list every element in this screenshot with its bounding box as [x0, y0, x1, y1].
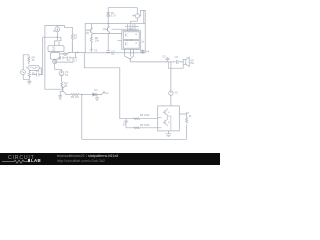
resistor R10 at right: [179, 111, 192, 139]
transistor Q5: [164, 120, 166, 124]
capacitor C3 series row: [58, 52, 78, 62]
crystal X1 hexagon: [28, 65, 40, 70]
bus wire y37: [43, 36, 61, 38]
pin wires into block: [128, 24, 135, 31]
svg-text:5.1V: 5.1V: [111, 14, 117, 18]
speaker line wire: [130, 61, 183, 63]
arrow mark beside I1: [54, 30, 56, 31]
transistor Q3: [60, 85, 65, 96]
capacitor C6 polarized: [175, 55, 179, 64]
svg-text:R8 100k: R8 100k: [140, 113, 150, 117]
node dot: [81, 94, 82, 95]
transistor Q1 chain inside box: [86, 24, 93, 37]
logo resistor squiggle: [2, 160, 28, 163]
svg-text:C3: C3: [64, 53, 68, 57]
node dot on box top: [108, 23, 109, 24]
speaker SPK1: [183, 57, 194, 66]
svg-text:5V: 5V: [65, 73, 68, 77]
source V2: [59, 70, 69, 77]
zener D2 on top wire: [107, 8, 138, 24]
svg-text:1u: 1u: [67, 58, 70, 62]
svg-text:out: out: [105, 91, 109, 95]
diode D3 circle: [53, 59, 57, 64]
stacked relay blocks: [122, 27, 145, 49]
transistor Q4: [164, 110, 166, 114]
emitter chain wire: [66, 94, 72, 96]
svg-text:V4: V4: [146, 50, 150, 54]
CircuitLab logo: [8, 155, 35, 161]
footer text: [57, 154, 118, 158]
speaker return wire: [168, 62, 183, 68]
capacitor C2 to node: [32, 68, 42, 75]
horizontal link inside box: [93, 34, 122, 41]
current source I1: [55, 27, 60, 32]
cap C10 below box right: [140, 51, 144, 54]
ground: [27, 79, 32, 84]
resistor R3: [28, 56, 30, 64]
source V5: [169, 90, 178, 95]
svg-text:C2: C2: [36, 69, 40, 73]
wire below V1: [23, 75, 29, 80]
svg-text:C5: C5: [162, 55, 166, 59]
op-amp block U1: [48, 45, 64, 52]
resistor R9 on lower input: [134, 123, 151, 129]
svg-text:V5: V5: [174, 90, 178, 94]
resistor R8 on upper input: [134, 113, 151, 119]
svg-text:2N: 2N: [86, 31, 89, 35]
wire and output flag: [96, 94, 101, 95]
resistor R5: [71, 94, 79, 96]
svg-text:1k: 1k: [189, 114, 192, 118]
wire from D3 to V2: [55, 64, 62, 71]
long vertical wire from bus to C2: [41, 37, 42, 74]
wire top loop of left cluster: [23, 55, 29, 70]
current source I2: [131, 8, 146, 24]
pins from bus to opamp box: [55, 37, 61, 46]
source V1 circle: [21, 70, 26, 75]
ground V4 at box bottom right: [141, 49, 150, 53]
svg-text:8Ω: 8Ω: [190, 61, 193, 65]
capacitor C4 below box: [106, 49, 115, 56]
block U2: [51, 52, 60, 60]
top-left current source loop: [45, 25, 72, 89]
battery V3 at box bottom: [90, 48, 98, 52]
svg-text:5V: 5V: [123, 123, 126, 127]
wire left long vertical: [45, 25, 63, 89]
branch down to V5: [170, 62, 172, 91]
svg-text:Q2: Q2: [103, 27, 107, 31]
node dot on bus: [57, 37, 58, 38]
svg-text:V3: V3: [94, 49, 98, 53]
lower input wire: [126, 127, 158, 129]
resistor R4a below hexagon: [28, 70, 30, 79]
Y junction under block: [125, 49, 134, 62]
capacitor C5 shunt: [162, 55, 169, 62]
node circle port: [64, 53, 66, 55]
left signal-source cluster: [21, 55, 42, 84]
ground under output block: [166, 131, 172, 137]
node dot: [77, 52, 78, 53]
link wires to block: [112, 26, 139, 29]
diode D1: [93, 93, 96, 96]
long vertical wire from D1 node down: [81, 95, 83, 140]
wire to D1: [79, 94, 93, 96]
wire top loop: [45, 25, 72, 34]
svg-text:R9 100k: R9 100k: [140, 123, 150, 127]
footer black bar: [0, 153, 220, 165]
resistor R6: [90, 37, 92, 51]
svg-text:100: 100: [75, 95, 80, 99]
svg-text:C7: C7: [74, 58, 78, 62]
svg-text:1k: 1k: [141, 40, 144, 44]
svg-text:C6: C6: [175, 55, 179, 59]
staircase wire from mid node to lower right: [84, 52, 157, 118]
ground under node: [95, 95, 99, 101]
svg-text:10k: 10k: [95, 38, 100, 42]
wire V5 to block: [170, 96, 172, 106]
node dot after D1: [96, 94, 97, 95]
resistor R4: [61, 82, 63, 88]
resistor R2: [71, 34, 73, 52]
capacitor C8 + ground under Q3: [59, 95, 62, 99]
battery V6: [123, 119, 128, 128]
wire V2 to R4: [61, 76, 63, 82]
output block box: [158, 106, 180, 131]
bottom bus wire: [82, 138, 187, 140]
transistor Q2 chain: [103, 24, 110, 51]
svg-text:D1: D1: [94, 88, 98, 92]
lower loop wire from diode: [55, 58, 73, 62]
wire mid y52: [60, 52, 85, 54]
main block box: [85, 24, 145, 53]
wire R2 bottom to mid line: [71, 42, 73, 53]
